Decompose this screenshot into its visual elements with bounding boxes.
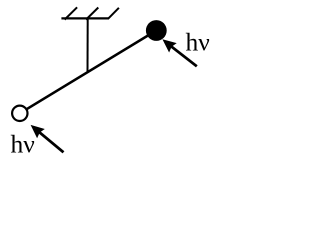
top arrow shaft: [170, 46, 197, 67]
top arrowhead: [162, 39, 176, 52]
hatch 3: [108, 8, 119, 19]
rod: [20, 31, 156, 114]
black ball: [146, 20, 167, 41]
ceiling line: [61, 17, 108, 19]
hatch 1: [65, 7, 78, 19]
svg-text:hν: hν: [186, 28, 210, 57]
svg-text:hν: hν: [11, 130, 35, 159]
white ball: [12, 106, 27, 121]
hatch 2: [86, 8, 98, 20]
bottom arrow shaft: [38, 131, 63, 152]
suspension wire: [87, 18, 89, 73]
bottom arrowhead: [31, 125, 45, 138]
